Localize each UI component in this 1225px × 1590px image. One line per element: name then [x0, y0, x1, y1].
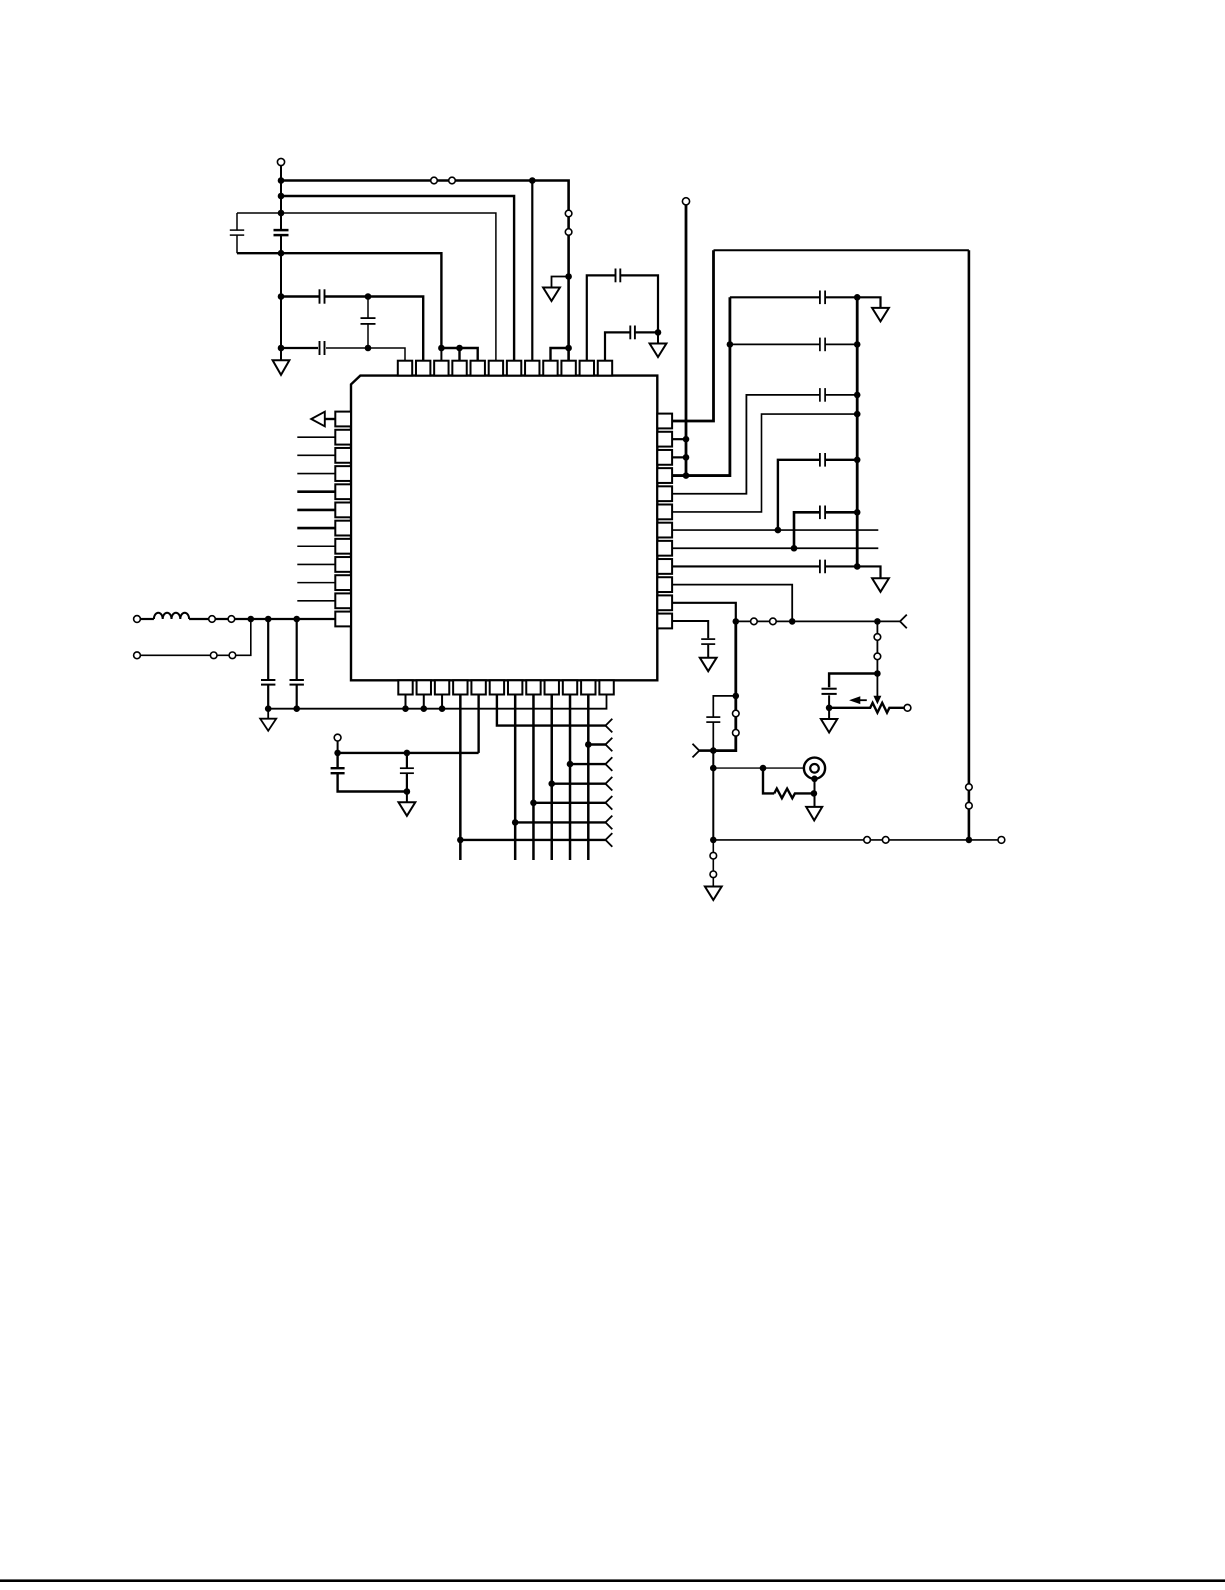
wire rail y=348 left segment	[281, 347, 318, 349]
wire vertical x=368 between rails	[367, 297, 369, 349]
wire column x=268.2 down	[267, 619, 269, 709]
IC U1 bottom pin box 5	[471, 680, 485, 694]
IC U1 left pin box 2	[335, 430, 351, 445]
capacitor C15	[706, 718, 720, 722]
IC U1 top pin box 5	[471, 361, 485, 376]
capacitor C7	[631, 326, 635, 340]
footer rule	[0, 1579, 1225, 1582]
jumper circles row y=619	[209, 616, 216, 623]
capacitor C1 left leg wire	[236, 213, 238, 253]
wire cap row y=344.4	[730, 343, 857, 345]
wire right pin 6 to row y=414.1	[672, 414, 857, 512]
capacitor C4	[361, 319, 376, 323]
IC U1 bottom pin box 6	[490, 680, 504, 694]
IC U1 left pin box 7	[335, 521, 351, 536]
terminal P1	[277, 158, 284, 165]
wire top pin 4 stub	[458, 348, 460, 361]
wire row y=621.4 with jumper circles to connector A8	[736, 620, 900, 622]
wire x=735.8 jumper column down to corner 750.6	[713, 696, 736, 751]
left pin 7 no-connect stub	[297, 527, 335, 530]
wire rail y=213 down to top pin 6	[237, 213, 496, 361]
wire cap row y=297.3	[730, 296, 857, 298]
wire right pin 1 to +B rail y=250.3	[672, 250, 713, 421]
ground G2	[543, 288, 560, 302]
wire ground bus x=857.2	[856, 297, 859, 566]
jack J1 outer ring	[804, 758, 825, 779]
IC U1 right pin box 7	[657, 523, 672, 538]
terminal P6	[904, 704, 911, 711]
IC U1 bottom pin box 12	[599, 680, 613, 694]
jumper circles column x=568.6	[565, 210, 572, 217]
wire right pin 3	[672, 456, 686, 458]
IC U1 left pin box 1	[335, 412, 351, 427]
IC U1 right pin box 6	[657, 505, 672, 520]
wire bottom pin 9 vertical	[550, 695, 553, 861]
wire bottom pin 8 vertical	[532, 695, 535, 861]
left pin 8 no-connect stub	[297, 545, 335, 547]
left pin 4 no-connect stub	[297, 473, 335, 475]
wire ground rail y=708.7 to bottom pin 12	[268, 695, 606, 709]
wire supply rail y=180.5 to top pin 10 column	[281, 181, 569, 361]
IC U1 top pin box 8	[525, 361, 539, 376]
wire x=735.8 column down to node 695.9	[734, 621, 737, 696]
wire stub ground G3	[657, 332, 659, 343]
wire bottom pin 4 vertical	[459, 695, 462, 861]
IC U1 top pin box 9	[543, 361, 557, 376]
inductor L1	[154, 613, 189, 619]
wire C19 leg down and rail y=791.5	[338, 753, 407, 792]
IC U1 top pin box 6	[489, 361, 503, 376]
connector arrow A8	[900, 615, 907, 629]
capacitor C2	[274, 231, 289, 235]
left pin 3 no-connect stub	[297, 454, 335, 456]
ground G11	[705, 887, 722, 901]
IC U1 top pin box 1	[398, 361, 412, 376]
capacitor C1	[230, 231, 244, 235]
connector arrow A9 video input	[693, 744, 700, 758]
IC U1 right pin box 3	[657, 450, 672, 465]
node P2 column x=686	[685, 205, 688, 476]
wire stub below C14	[707, 645, 709, 658]
capacitor C10	[821, 388, 825, 402]
wire bottom pin 10 vertical	[569, 695, 572, 861]
wire branch x=777.9 to cap row y=459.8	[778, 460, 857, 530]
wire branch rail y=180.5 down to top pin 8	[531, 181, 533, 361]
wire stub ground G9	[828, 708, 830, 719]
wire branch top pin 9 to x=568.6 column	[551, 348, 569, 361]
wire below C16	[828, 695, 830, 708]
wire bridge top pins 3-4-5 at y=347.5	[441, 348, 477, 361]
wire x=713.3 down to jack row and rail y=839.9	[712, 751, 714, 840]
capacitor C3 in rail y=296.5	[320, 289, 324, 303]
IC U1 right pin box 9	[657, 559, 672, 574]
IC U1 bottom pin box 4	[453, 680, 467, 694]
wire supply rail y=196 down to top pin 7	[281, 196, 514, 361]
wire bottom pin 3 stub	[441, 695, 443, 709]
IC U1 right pin box 11	[657, 595, 672, 610]
wire stub to ground G5	[857, 566, 880, 578]
terminal P2	[682, 198, 689, 205]
connector arrow A3	[606, 757, 613, 771]
wire connector row A2	[588, 743, 605, 745]
left pin 6 no-connect stub	[297, 509, 335, 512]
wire row y=655.3 up to row y=619	[141, 619, 251, 655]
wire stub P5 down	[337, 741, 339, 753]
wire right pin 5 to cap row y=394.9	[672, 395, 857, 494]
ground G6	[700, 658, 717, 672]
left pin 5 no-connect stub	[297, 490, 335, 493]
wire connector row A6	[515, 821, 605, 823]
left pin 9 no-connect stub	[297, 563, 335, 565]
IC U1 bottom pin box 11	[581, 680, 595, 694]
capacitor C13	[821, 560, 825, 574]
connector arrow A6	[606, 816, 613, 830]
wire row y=619 continued	[189, 618, 335, 620]
capacitor C9	[821, 338, 825, 352]
wire top pin 3 stub	[440, 348, 442, 361]
wire +B rail y=250.3	[714, 249, 969, 251]
wire connector row A5	[533, 802, 605, 804]
wire connector row A4	[552, 783, 606, 785]
left pin 2 no-connect stub	[297, 436, 335, 438]
wire connector row A3	[570, 763, 605, 765]
wire branch to C15 leg	[713, 696, 736, 751]
wire column x=296.7 down	[296, 619, 298, 709]
terminal P7	[998, 837, 1005, 844]
capacitor C17	[261, 680, 275, 684]
IC U1 left pin box 5	[335, 484, 351, 499]
terminal P5	[334, 734, 341, 741]
wire right pin 4 to x=729.9 column	[672, 297, 730, 475]
terminal P4	[134, 652, 141, 659]
jumper circles on x=877.4	[874, 634, 881, 641]
wire branch x=794 to cap row y=512.3	[794, 512, 857, 548]
IC U1 left pin box 4	[335, 466, 351, 481]
left pin 11 no-connect stub	[297, 600, 335, 602]
wire right pin 10 to x=792.2 down	[672, 585, 792, 622]
ground G4	[872, 308, 889, 322]
capacitor C14	[701, 640, 715, 644]
wire right pin 2	[672, 438, 686, 440]
wire right pin 11 to x=735.8 down	[672, 603, 736, 622]
jumper circles on x=713.3	[710, 852, 717, 859]
terminal P3	[134, 616, 141, 623]
IC U1 left pin box 8	[335, 539, 351, 554]
wire right pin 12 decoupling leg	[672, 621, 708, 638]
IC U1 left pin box 3	[335, 448, 351, 463]
capacitor C6	[616, 269, 620, 283]
wire branch x=568.6 column to ground G2	[552, 277, 569, 288]
capacitor C20	[400, 769, 414, 773]
capacitor C12	[821, 506, 825, 520]
jack J1 inner pin	[810, 764, 819, 773]
capacitor C18	[290, 680, 304, 684]
capacitor C16	[822, 689, 837, 693]
jumper circles row y=621.4	[751, 618, 758, 625]
connector arrow A5	[606, 796, 613, 810]
IC U1 top pin box 4	[452, 361, 466, 376]
jumper circles rail y=839.9	[864, 837, 871, 844]
IC U1 right pin box 1	[657, 414, 672, 429]
potentiometer VR1 resistor zigzag	[829, 703, 904, 713]
wire right pin 8 long row y=548.3	[672, 547, 878, 549]
wire stub to ground G4	[857, 297, 880, 308]
ground G3	[650, 344, 667, 358]
wire bottom pin 1 stub	[405, 695, 407, 709]
ground G5	[872, 578, 889, 592]
connector arrow A1	[606, 719, 613, 733]
connector arrow A2	[606, 738, 613, 752]
IC U1 bottom pin box 10	[563, 680, 577, 694]
IC U1 bottom pin box 8	[526, 680, 540, 694]
wire pot top rail y=673.5	[829, 674, 877, 688]
wire bottom pin 11 vertical	[587, 695, 590, 861]
capacitor C11	[821, 453, 825, 467]
wire x=877.4 column from row to pot node	[876, 621, 878, 673]
IC U1 right pin box 8	[657, 541, 672, 556]
wire row y=619 into left pin 12	[141, 618, 154, 620]
IC U1 bottom pin box 3	[435, 680, 449, 694]
wire right pin 9 cap row y=566.5	[672, 565, 857, 567]
IC U1 left pin box 11	[335, 593, 351, 608]
IC U1 left pin box 12	[335, 612, 351, 627]
IC U1 bottom pin box 9	[545, 680, 559, 694]
wire bottom pin 7 vertical	[514, 695, 517, 861]
IC U1 bottom pin box 7	[508, 680, 522, 694]
wire stub ground G8	[406, 792, 408, 803]
IC U1 top pin box 11	[580, 361, 594, 376]
capacitor C19	[331, 769, 345, 773]
wire rail y=296.5 to top pin 2	[281, 297, 423, 361]
wire rail y=348 to top pin 1	[326, 348, 405, 361]
wire +B drop x=968.9	[968, 250, 971, 840]
wire top pin 12 elbow rail y=332.4	[605, 332, 658, 360]
resistor R1 zigzag	[774, 789, 814, 799]
IC U1 left pin box 9	[335, 557, 351, 572]
junction dots	[248, 177, 973, 843]
wire rail y=752.9 to bottom pin 5	[338, 752, 479, 754]
IC U1 right pin box 10	[657, 577, 672, 592]
wire top pin 11 column up and over to x=658	[587, 275, 658, 360]
IC U1 top pin box 3	[434, 361, 448, 376]
IC U1 left pin box 10	[335, 575, 351, 590]
wire connector row A7	[460, 839, 605, 841]
wire C20 leg	[406, 753, 408, 792]
node VCC terminal vertical wire x=281	[280, 166, 282, 362]
wire bottom pin 6 to connector A1	[497, 695, 606, 726]
IC U1 bottom pin box 1	[398, 680, 412, 694]
wire bottom rail y=839.9 to terminal P7	[713, 839, 998, 841]
IC U1 right pin box 2	[657, 432, 672, 447]
IC U1 right pin box 5	[657, 486, 672, 501]
wire bottom pin 2 stub	[423, 695, 425, 709]
ground G9	[821, 719, 837, 733]
wire arrow A9 to node	[699, 749, 713, 752]
ground G7	[260, 719, 276, 731]
wire x=713.3 below rail to ground G11	[712, 840, 714, 887]
IC U1 right pin box 12	[657, 614, 672, 629]
ground G1	[273, 360, 290, 375]
wire right pin 7 long row y=530.1	[672, 529, 878, 531]
jumper circles column x=968.9	[966, 784, 973, 791]
wire resistor R1 loop	[763, 768, 774, 793]
IC U1 top pin box 2	[416, 361, 430, 376]
IC U1 right pin box 4	[657, 468, 672, 483]
connector arrow A4	[606, 777, 613, 791]
IC U1 top pin box 12	[598, 361, 612, 376]
wiper arrowhead	[874, 696, 880, 703]
op IC U1 body (QFP outline with chamfered top-left corner)	[351, 376, 657, 681]
left pin 10 no-connect stub	[297, 582, 335, 584]
IC U1 bottom pin box 2	[417, 680, 431, 694]
jumper circles rail y=180.5	[431, 177, 438, 184]
IC U1 left pin box 6	[335, 503, 351, 518]
wire jack feed row y=768.1	[713, 767, 810, 769]
wire stub ground G7	[267, 709, 269, 719]
wire jack J1 shield down	[814, 779, 816, 807]
IC U1 top pin box 7	[507, 361, 521, 376]
adjustment arrow pointing left	[856, 699, 867, 701]
wire potentiometer VR1 wiper	[876, 674, 878, 698]
jumper circles row y=655.3	[210, 652, 217, 659]
ground G10	[806, 807, 822, 821]
jumper circles column x=735.8	[733, 710, 740, 717]
wire bottom pin 5 to rail y=752.9	[477, 695, 479, 753]
left pin 1 bus arrow	[325, 418, 336, 420]
capacitor C8	[821, 291, 825, 305]
IC U1 top pin box 10	[561, 361, 575, 376]
wire rail y=254 to vertical x=441.4	[237, 253, 441, 348]
connector arrow A7	[606, 833, 613, 847]
ground G8	[399, 802, 416, 816]
capacitor C5 in rail y=347.5	[320, 341, 324, 355]
